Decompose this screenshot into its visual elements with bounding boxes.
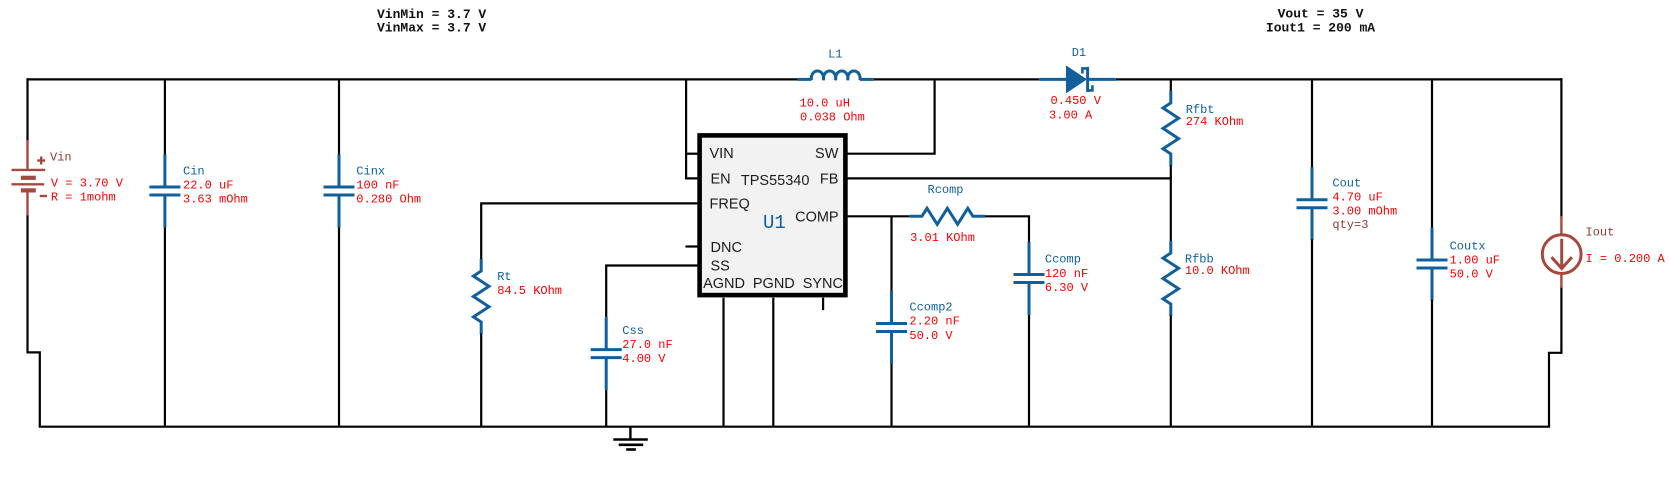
svg-text:3.01 KOhm: 3.01 KOhm bbox=[910, 231, 975, 245]
wire: Cinx branch upper bbox=[338, 79, 340, 156]
svg-text:SYNC: SYNC bbox=[803, 276, 843, 292]
svg-text:Vin: Vin bbox=[50, 151, 72, 165]
svg-text:10.0 KOhm: 10.0 KOhm bbox=[1185, 264, 1250, 278]
wire: AGND pin to bottom rail bbox=[722, 298, 724, 427]
svg-text:I = 0.200 A: I = 0.200 A bbox=[1586, 252, 1666, 266]
svg-text:3.00 mOhm: 3.00 mOhm bbox=[1332, 205, 1397, 219]
svg-text:4.70 uF: 4.70 uF bbox=[1332, 191, 1382, 205]
svg-text:3.00 A: 3.00 A bbox=[1049, 108, 1093, 122]
wire: Css lower bbox=[605, 390, 607, 427]
capacitor Cinx bbox=[324, 155, 355, 228]
wire: top rail left segment (input node) bbox=[27, 78, 798, 80]
op-amp U1 TPS55340 IC body bbox=[700, 135, 846, 295]
svg-text:COMP: COMP bbox=[795, 210, 839, 226]
wire: Rt lower bbox=[480, 334, 482, 427]
wire: PGND pin to bottom rail bbox=[772, 298, 774, 427]
svg-text:120 nF: 120 nF bbox=[1045, 267, 1088, 281]
ground bbox=[613, 427, 648, 450]
svg-text:AGND: AGND bbox=[703, 276, 745, 292]
wire: Rfbb lower bbox=[1170, 316, 1172, 427]
svg-text:22.0 uF: 22.0 uF bbox=[183, 179, 233, 193]
wire: top rail between L1 and D1 (SW node) bbox=[874, 78, 1039, 80]
battery Vin bbox=[12, 140, 48, 216]
wire: bottom rail bbox=[39, 426, 1550, 428]
svg-text:Cinx: Cinx bbox=[356, 165, 385, 179]
wire: Ccomp2 branch upper bbox=[890, 216, 892, 291]
wire: Cout branch upper bbox=[1311, 79, 1313, 168]
svg-text:PGND: PGND bbox=[753, 276, 795, 292]
svg-text:L1: L1 bbox=[828, 47, 842, 61]
svg-text:2.20 nF: 2.20 nF bbox=[909, 315, 959, 329]
svg-text:27.0 nF: 27.0 nF bbox=[622, 338, 672, 352]
svg-text:4.00 V: 4.00 V bbox=[622, 352, 666, 366]
svg-text:Cout: Cout bbox=[1332, 177, 1361, 191]
diode D1 (schottky) bbox=[1039, 65, 1116, 93]
wire: SYNC stub bbox=[822, 298, 824, 310]
wire: VIN/EN riser bbox=[686, 79, 698, 178]
svg-text:274 KOhm: 274 KOhm bbox=[1186, 115, 1244, 129]
svg-text:6.30 V: 6.30 V bbox=[1045, 281, 1089, 295]
wire: SS wire to Css bbox=[606, 266, 698, 318]
wire: Rfbt branch upper bbox=[1170, 79, 1172, 91]
svg-text:50.0 V: 50.0 V bbox=[1450, 267, 1494, 281]
svg-text:TPS55340: TPS55340 bbox=[741, 173, 810, 189]
wire: left rail below battery with step bbox=[28, 215, 40, 427]
wire: SW pin to riser bbox=[846, 79, 935, 153]
capacitor Css bbox=[591, 317, 622, 390]
svg-text:D1: D1 bbox=[1072, 46, 1086, 60]
svg-text:VIN: VIN bbox=[710, 146, 734, 162]
wire: Coutx branch lower bbox=[1431, 300, 1433, 427]
capacitor Coutx bbox=[1417, 228, 1448, 301]
wire: COMP wire left of Rcomp bbox=[846, 215, 910, 217]
resistor Rcomp bbox=[910, 208, 985, 224]
svg-text:0.038 Ohm: 0.038 Ohm bbox=[800, 111, 865, 125]
svg-text:FB: FB bbox=[820, 172, 839, 188]
svg-text:Vout = 35 V: Vout = 35 V bbox=[1278, 7, 1364, 22]
wire: Ccomp2 branch lower bbox=[890, 364, 892, 427]
svg-text:Iout1 = 200 mA: Iout1 = 200 mA bbox=[1266, 20, 1375, 35]
wire: COMP wire right of Rcomp bbox=[985, 216, 1029, 242]
svg-text:SS: SS bbox=[711, 259, 730, 275]
svg-text:Coutx: Coutx bbox=[1450, 240, 1486, 254]
svg-text:V = 3.70 V: V = 3.70 V bbox=[51, 176, 124, 190]
wire: left rail above battery bbox=[26, 78, 28, 141]
wire: right rail below Iout with step bbox=[1549, 287, 1561, 427]
wire: right rail above Iout bbox=[1560, 78, 1562, 217]
capacitor Cout bbox=[1297, 167, 1328, 240]
svg-text:Cin: Cin bbox=[183, 165, 205, 179]
svg-text:VinMin = 3.7 V: VinMin = 3.7 V bbox=[377, 7, 486, 22]
svg-text:Rcomp: Rcomp bbox=[928, 183, 964, 197]
svg-text:R = 1mohm: R = 1mohm bbox=[51, 190, 116, 204]
svg-text:DNC: DNC bbox=[711, 240, 742, 256]
svg-text:U1: U1 bbox=[763, 212, 786, 234]
wire: VIN pin stub bbox=[686, 153, 698, 155]
svg-text:qty=3: qty=3 bbox=[1332, 218, 1368, 232]
svg-text:50.0 V: 50.0 V bbox=[909, 329, 953, 343]
svg-text:VinMax = 3.7 V: VinMax = 3.7 V bbox=[377, 21, 486, 36]
capacitor Ccomp bbox=[1014, 242, 1045, 315]
svg-text:Ccomp: Ccomp bbox=[1045, 253, 1081, 267]
wire: Rfbt to Rfbb (FB node) bbox=[1170, 165, 1172, 241]
wire: Coutx branch upper bbox=[1431, 79, 1433, 228]
resistor Rfbt bbox=[1163, 91, 1179, 166]
svg-text:3.63 mOhm: 3.63 mOhm bbox=[183, 193, 248, 207]
svg-text:Css: Css bbox=[622, 324, 644, 338]
svg-text:1.00 uF: 1.00 uF bbox=[1450, 254, 1500, 268]
capacitor Cin bbox=[149, 155, 180, 228]
resistor Rt bbox=[473, 259, 489, 334]
wire: Cinx branch lower bbox=[338, 226, 340, 427]
wire: FB wire bbox=[846, 177, 1171, 179]
svg-text:Iout: Iout bbox=[1586, 225, 1615, 239]
wire: top rail right segment (Vout node) bbox=[1116, 78, 1563, 80]
wire: Cin branch lower bbox=[164, 226, 166, 427]
svg-text:FREQ: FREQ bbox=[710, 197, 750, 213]
resistor Rfbb bbox=[1163, 241, 1179, 316]
svg-text:84.5 KOhm: 84.5 KOhm bbox=[497, 284, 562, 298]
wire: Ccomp branch lower bbox=[1028, 315, 1030, 427]
capacitor Ccomp2 bbox=[876, 291, 907, 364]
wire: Cout branch lower bbox=[1311, 239, 1313, 426]
wire: Cin branch upper bbox=[164, 79, 166, 156]
svg-text:0.450 V: 0.450 V bbox=[1051, 94, 1102, 108]
current source Iout bbox=[1542, 216, 1581, 288]
svg-text:10.0 uH: 10.0 uH bbox=[800, 97, 850, 111]
svg-text:Ccomp2: Ccomp2 bbox=[909, 301, 952, 315]
wire: DNC stub bbox=[685, 245, 698, 247]
svg-text:100 nF: 100 nF bbox=[356, 179, 399, 193]
svg-text:EN: EN bbox=[711, 172, 731, 188]
svg-text:SW: SW bbox=[815, 146, 839, 162]
inductor L1 bbox=[798, 71, 874, 80]
svg-text:0.280 Ohm: 0.280 Ohm bbox=[356, 193, 421, 207]
wire: FREQ wire to Rt bbox=[481, 203, 698, 259]
svg-text:Rt: Rt bbox=[497, 270, 511, 284]
